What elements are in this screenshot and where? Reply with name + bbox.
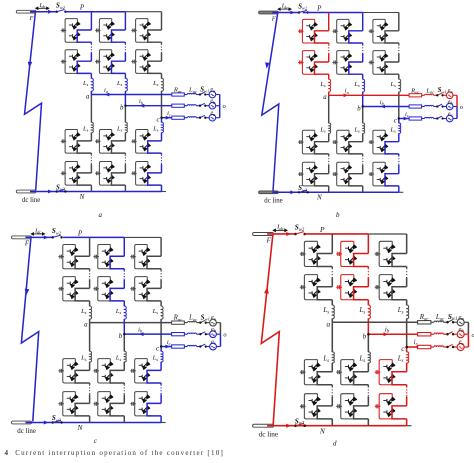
resistor Rac (phase b) — [418, 333, 431, 336]
switch Sw2 (dc positive pole) — [294, 233, 297, 236]
dotted: omitted submodules (upper arm b) — [367, 267, 369, 269]
submodule SM clower2 conduction path — [147, 403, 161, 416]
wire: N bus rail — [30, 191, 162, 193]
svg-text:d: d — [333, 439, 337, 447]
arm inductor Ls (upper arm, phase b) — [125, 78, 127, 91]
inductor Lac (phase b) — [187, 105, 196, 106]
submodule SM clower1: half-bridge cell — [375, 360, 397, 385]
wire: upper arm chain, phase b (from P rail) — [362, 13, 364, 31]
wire: chain to N rail — [124, 185, 126, 191]
dc terminal (positive pole P) — [16, 2, 66, 14]
wire: chain to arm inductor — [161, 73, 163, 78]
wire: chain to N rail — [160, 416, 162, 423]
current arrow ib — [380, 105, 385, 109]
wire: phase-c output line (node c) — [161, 346, 172, 348]
wire: chain to N rail — [406, 419, 408, 426]
arm inductor Ls (upper arm, phase a) — [329, 79, 331, 92]
wire: phase-b output line (node b) — [124, 333, 171, 335]
svg-text:P: P — [319, 225, 325, 234]
wire: lower arm chain, phase c (from node c) — [160, 347, 162, 352]
wire: dc terminal to switch, with current arrow — [272, 12, 299, 14]
dc terminal (positive pole P) — [259, 3, 309, 15]
submodule SM bupper2: half-bridge cell — [336, 275, 358, 300]
wire: chain to arm inductor — [124, 73, 126, 78]
submodule SM alower1: half-bridge cell — [298, 130, 319, 154]
submodule SM cupper1: half-bridge cell — [375, 241, 397, 266]
submodule SM alower1: half-bridge cell — [300, 360, 322, 385]
submodule SM clower2 conduction path — [385, 174, 399, 186]
wire: phase-c output line (node c) — [407, 346, 418, 348]
dotted: omitted submodules (upper arm b) — [362, 43, 364, 45]
junction node c — [160, 117, 162, 119]
submodule SM alower2: half-bridge cell — [300, 394, 322, 419]
svg-text:a: a — [86, 93, 90, 100]
dotted: omitted submodules (lower arm b) — [362, 154, 364, 156]
submodule SM blower1: half-bridge cell — [336, 360, 358, 385]
resistor Rac (phase b) — [172, 104, 185, 107]
dotted: omitted submodules (lower arm c) — [161, 153, 163, 155]
ac source ec — [446, 115, 453, 122]
arm inductor Ls (lower arm, phase a) — [91, 122, 93, 132]
junction node b — [367, 333, 370, 336]
arm inductor Ls (upper arm, phase a) — [90, 306, 92, 319]
submodule SM blower2: half-bridge cell — [93, 392, 114, 416]
submodule SM blower1 conduction path — [112, 141, 126, 153]
svg-text:c: c — [394, 117, 397, 124]
submodule SM cupper1: half-bridge cell — [369, 19, 390, 43]
submodule SM bupper1 conduction path — [354, 254, 369, 267]
dotted: omitted submodules (upper arm c) — [160, 269, 162, 271]
wire: chain to arm inductor — [89, 301, 91, 306]
arm inductor Ls (upper arm, phase a) — [91, 78, 93, 91]
dotted: omitted submodules (lower arm c) — [398, 154, 400, 156]
ac source eb — [457, 331, 464, 338]
dotted: omitted submodules (lower arm a) — [331, 385, 333, 387]
wire: upper arm chain, phase c (from P rail) — [406, 234, 408, 254]
dotted: omitted submodules (lower arm c) — [406, 385, 408, 387]
resistor Rac (phase c) — [172, 116, 185, 119]
wire: lower arm chain, phase a (from node a) — [90, 95, 92, 123]
svg-text:4 Current interruption operat: 4 Current interruption operation of the … — [5, 449, 225, 457]
submodule SM bupper2 conduction path — [349, 62, 363, 74]
wire: dc terminal to switch, with current arrow — [267, 233, 295, 235]
resistor Rac (phase a) — [172, 321, 185, 324]
switch Sw1 (phase c): contacts and blade — [437, 116, 442, 118]
dotted: omitted submodules (upper arm c) — [161, 42, 163, 44]
switch Sw1 (phase c): contacts and blade — [200, 115, 205, 117]
arm inductor Ls (lower arm, phase c) — [162, 122, 164, 132]
current arrow ib — [139, 332, 144, 336]
switch Sw3 (dc negative pole) — [294, 424, 297, 427]
switch Sw1 (phase a): contacts and blade — [200, 320, 205, 322]
submodule SM clower1: half-bridge cell — [131, 130, 152, 154]
wire: lower arm chain, phase b (from node b) — [367, 334, 369, 352]
submodule SM aupper1: half-bridge cell — [58, 244, 79, 268]
submodule SM alower2: half-bridge cell — [298, 162, 319, 186]
junction node b — [362, 105, 364, 107]
resistor Rac (phase b) — [172, 333, 185, 336]
dotted: omitted submodules (upper arm a) — [328, 43, 330, 45]
dc line with fault (lightning) symbol — [262, 14, 279, 191]
submodule SM blower1 conduction path — [354, 372, 369, 385]
resistor Rac (phase c) — [409, 117, 422, 120]
submodule SM clower2: half-bridge cell — [131, 162, 152, 186]
submodule SM aupper2 conduction path — [315, 62, 329, 74]
switch Sw3 (dc negative pole) — [298, 191, 300, 193]
dc terminal (negative pole N) — [253, 424, 274, 427]
dc terminal (negative pole N) — [11, 421, 31, 424]
svg-text:dc line: dc line — [17, 427, 36, 435]
wire: phase-c output line (node c) — [399, 118, 409, 120]
submodule SM alower1 conduction path — [77, 141, 91, 153]
ac source ea — [446, 92, 453, 99]
wire: upper arm chain, phase a (from P rail) — [90, 12, 92, 30]
ac source ec — [210, 343, 217, 350]
submodule SM clower1: half-bridge cell — [369, 130, 390, 154]
submodule SM aupper1: half-bridge cell — [300, 241, 322, 266]
inductor Lac (phase a) — [434, 321, 443, 322]
submodule SM cupper1 conduction path — [392, 254, 407, 267]
wire: phase-a output line (node a) — [329, 94, 409, 96]
inductor Lac (phase c) — [434, 346, 443, 347]
wire: upper arm chain, phase c (from P rail) — [398, 13, 400, 31]
svg-text:b: b — [119, 332, 123, 340]
dc line with fault (lightning) symbol — [25, 13, 42, 190]
dotted: omitted submodules (upper arm a) — [89, 269, 91, 271]
wire: phase-b output line (node b) — [125, 105, 171, 107]
svg-text:a: a — [327, 320, 331, 328]
junction node c — [160, 345, 162, 347]
arm inductor Ls (upper arm, phase c) — [161, 306, 163, 319]
svg-text:dc line: dc line — [264, 198, 282, 205]
submodule SM alower2 conduction path — [315, 174, 329, 186]
switch Sw1 (phase c): contacts and blade — [448, 344, 453, 347]
switch Sw1 (phase a): contacts and blade — [448, 320, 453, 323]
submodule SM bupper2 conduction path — [112, 61, 126, 73]
arm inductor Ls (lower arm, phase b) — [124, 351, 126, 362]
submodule SM bupper1: half-bridge cell — [95, 19, 116, 43]
submodule SM aupper2: half-bridge cell — [58, 277, 79, 301]
dotted: omitted submodules (lower arm a) — [328, 154, 330, 156]
wire: chain to N rail — [367, 419, 369, 426]
wire: chain to N rail — [362, 186, 364, 192]
arm inductor Ls (lower arm, phase a) — [90, 351, 92, 362]
submodule SM alower1: half-bridge cell — [58, 359, 79, 383]
svg-text:N: N — [316, 194, 322, 202]
current arrow ib — [384, 332, 389, 336]
svg-text:F: F — [266, 237, 272, 245]
inductor Lac (phase c) — [187, 117, 196, 118]
submodule SM cupper2: half-bridge cell — [130, 277, 151, 301]
svg-text:c: c — [156, 117, 159, 124]
arm inductor Ls (lower arm, phase c) — [399, 123, 401, 133]
wire: upper arm chain, phase b (from P rail) — [367, 234, 369, 254]
submodule SM alower1 conduction path — [315, 142, 329, 154]
dc terminal (positive pole P) — [253, 224, 306, 236]
wire: phase-a output line (node a) — [91, 94, 171, 96]
wire: chain to N rail — [398, 186, 400, 192]
arm inductor Ls (upper arm, phase b) — [124, 306, 126, 319]
arm inductor Ls (lower arm, phase c) — [161, 351, 163, 362]
svg-text:o: o — [223, 332, 226, 339]
current arrow ic — [404, 117, 409, 121]
submodule SM blower1 conduction path — [110, 370, 124, 383]
wire: chain to arm inductor — [406, 300, 408, 306]
resistor Rac (phase a) — [172, 93, 185, 96]
ac source eb — [210, 331, 217, 338]
ac source ea — [210, 319, 217, 326]
dotted: omitted submodules (upper arm c) — [406, 267, 408, 269]
ac source eb — [209, 102, 216, 109]
svg-text:b: b — [336, 211, 340, 219]
submodule SM clower1 conduction path — [385, 142, 399, 154]
wire: chain to N rail — [161, 185, 163, 191]
switch Sw1 (phase b): contacts and blade — [200, 332, 205, 334]
submodule SM blower2: half-bridge cell — [336, 394, 358, 419]
wire: chain to arm inductor — [331, 300, 333, 306]
wire: N bus rail — [25, 421, 161, 423]
wire: chain to N rail — [90, 185, 92, 191]
arm inductor Ls (lower arm, phase b) — [368, 352, 370, 363]
dotted: omitted submodules (lower arm b) — [367, 385, 369, 387]
inductor Lac (phase a) — [187, 321, 196, 322]
svg-text:o: o — [460, 104, 463, 111]
dotted: omitted submodules (lower arm b) — [123, 383, 125, 385]
current arrow ia — [344, 93, 349, 97]
wire: N bus rail — [272, 191, 399, 193]
wire: source neutral bus (node o) — [219, 95, 221, 106]
submodule SM aupper1: half-bridge cell — [298, 19, 319, 43]
wire: phase-b output line (node b) — [368, 333, 417, 335]
submodule SM aupper2 conduction path — [75, 288, 89, 301]
submodule SM clower1 conduction path — [147, 370, 161, 383]
svg-text:P: P — [316, 5, 322, 13]
switch Sw3 (dc negative pole) — [52, 421, 54, 423]
dc line with fault (lightning) symbol — [21, 239, 38, 422]
wire: dc terminal to switch, with current arrow — [30, 11, 57, 13]
svg-text:P: P — [79, 4, 85, 12]
submodule SM aupper1 conduction path — [77, 30, 91, 42]
submodule SM blower2 conduction path — [110, 403, 124, 416]
wire: upper arm chain, phase a (from P rail) — [89, 237, 91, 256]
submodule SM cupper2 conduction path — [148, 61, 162, 73]
svg-text:dc line: dc line — [22, 197, 40, 204]
submodule SM aupper2: half-bridge cell — [300, 275, 322, 300]
arm inductor Ls (upper arm, phase c) — [399, 79, 401, 92]
svg-text:P: P — [77, 229, 83, 237]
submodule SM blower2 conduction path — [112, 173, 126, 185]
inductor Lac (phase b) — [425, 105, 434, 106]
wire: source neutral bus (node o) — [456, 95, 458, 106]
switch Sw1 (phase b): contacts and blade — [437, 104, 442, 106]
svg-text:F: F — [24, 241, 30, 248]
current arrow ic — [414, 345, 419, 349]
svg-text:a: a — [99, 211, 103, 219]
resistor Rac (phase b) — [409, 105, 422, 108]
inductor Lac (phase a) — [425, 94, 434, 95]
submodule SM aupper2: half-bridge cell — [298, 51, 319, 75]
svg-text:b: b — [357, 105, 361, 112]
dotted: omitted submodules (lower arm a) — [89, 383, 91, 385]
dc terminal (negative pole N) — [259, 191, 279, 194]
submodule SM alower1: half-bridge cell — [61, 130, 82, 154]
wire: phase-b output line (node b) — [363, 106, 409, 108]
submodule SM clower2 conduction path — [392, 406, 407, 419]
dc line with fault (lightning) symbol — [261, 235, 279, 424]
svg-text:o: o — [223, 103, 226, 110]
dotted: omitted submodules (lower arm c) — [160, 383, 162, 385]
svg-text:a: a — [323, 94, 327, 101]
submodule SM cupper1 conduction path — [147, 256, 161, 269]
submodule SM bupper1 conduction path — [110, 256, 124, 269]
submodule SM cupper1 conduction path — [148, 30, 162, 42]
inductor Lac (phase b) — [434, 333, 443, 334]
wire: upper arm chain, phase b (from P rail) — [124, 12, 126, 30]
submodule SM blower1: half-bridge cell — [93, 359, 114, 383]
junction node b — [124, 105, 126, 107]
dotted: omitted submodules (upper arm a) — [331, 267, 333, 269]
submodule SM bupper1: half-bridge cell — [332, 19, 353, 43]
switch Sw1 (phase a): contacts and blade — [200, 92, 205, 94]
submodule SM aupper2 conduction path — [317, 287, 332, 300]
arm inductor Ls (upper arm, phase b) — [368, 305, 370, 319]
wire: lower arm chain, phase b (from node b) — [123, 334, 125, 351]
submodule SM alower2: half-bridge cell — [58, 392, 79, 416]
submodule SM clower2: half-bridge cell — [375, 394, 397, 419]
switch Sw1 (phase b): contacts and blade — [200, 103, 205, 105]
dotted: omitted submodules (lower arm b) — [124, 153, 126, 155]
svg-text:b: b — [120, 105, 124, 112]
wire: N bus rail — [267, 425, 407, 427]
submodule SM cupper1 conduction path — [385, 31, 399, 43]
dc terminal (negative pole N) — [16, 190, 36, 193]
switch Sw1 (phase a): contacts and blade — [437, 93, 442, 95]
arm inductor Ls (lower arm, phase c) — [407, 352, 409, 363]
wire: P bus rail — [305, 233, 369, 235]
arm inductor Ls (upper arm, phase b) — [363, 79, 365, 92]
wire: P bus rail — [63, 236, 124, 238]
wire: lower arm chain, phase b (from node b) — [362, 107, 364, 124]
submodule SM blower1: half-bridge cell — [332, 130, 353, 154]
svg-text:N: N — [79, 193, 85, 201]
wire: chain to N rail — [328, 186, 330, 192]
inductor Lac (phase c) — [187, 345, 196, 346]
arm inductor Ls (lower arm, phase a) — [332, 352, 334, 363]
arm inductor Ls (lower arm, phase b) — [125, 122, 127, 132]
submodule SM cupper2 conduction path — [147, 288, 161, 301]
switch Sw2 (dc positive pole) — [52, 236, 54, 238]
wire: lower arm chain, phase b (from node b) — [124, 106, 126, 123]
submodule SM clower2 conduction path — [148, 173, 162, 185]
wire: source neutral bus (node o) — [467, 322, 469, 334]
dc terminal (positive pole P) — [11, 227, 62, 239]
submodule SM cupper1: half-bridge cell — [130, 244, 151, 268]
wire: chain to arm inductor — [362, 74, 364, 79]
submodule SM aupper1: half-bridge cell — [61, 19, 82, 43]
current arrow ib — [140, 104, 145, 108]
submodule SM clower2: half-bridge cell — [369, 162, 390, 186]
submodule SM alower2: half-bridge cell — [61, 162, 82, 186]
dotted: omitted submodules (upper arm b) — [124, 42, 126, 44]
wire: phase-a output line (node a) — [332, 321, 417, 323]
submodule SM cupper2 conduction path — [392, 287, 407, 300]
submodule SM cupper2 conduction path — [385, 62, 399, 74]
svg-text:dc line: dc line — [259, 431, 278, 439]
junction node b — [123, 333, 125, 335]
wire: upper arm chain, phase a (from P rail) — [328, 13, 330, 31]
switch Sw2 (dc positive pole) — [56, 11, 58, 13]
submodule SM alower2 conduction path — [75, 403, 89, 416]
submodule SM blower2: half-bridge cell — [95, 162, 116, 186]
submodule SM clower1 conduction path — [392, 372, 407, 385]
arm inductor Ls (upper arm, phase a) — [332, 305, 334, 319]
wire: upper arm chain, phase c (from P rail) — [160, 237, 162, 256]
wire: source neutral bus (node o) — [219, 323, 221, 335]
submodule SM bupper2 conduction path — [354, 287, 369, 300]
wire: chain to N rail — [89, 416, 91, 423]
wire: P bus rail — [303, 12, 363, 14]
wire: phase-c output line (node c) — [162, 117, 172, 119]
submodule SM alower2 conduction path — [317, 406, 332, 419]
wire: P bus rail — [65, 11, 125, 13]
arm inductor Ls (upper arm, phase c) — [162, 78, 164, 91]
svg-text:a: a — [84, 321, 88, 329]
submodule SM blower1 conduction path — [349, 142, 363, 154]
submodule SM aupper1 conduction path — [75, 256, 89, 269]
submodule SM alower1 conduction path — [317, 372, 332, 385]
junction node c — [398, 117, 400, 119]
wire: chain to arm inductor — [160, 301, 162, 306]
switch Sw3 (dc negative pole) — [56, 190, 58, 192]
submodule SM bupper1 conduction path — [112, 30, 126, 42]
svg-text:N: N — [319, 426, 326, 435]
submodule SM cupper1: half-bridge cell — [131, 19, 152, 43]
junction node c — [405, 346, 408, 349]
ac source ea — [457, 319, 464, 326]
submodule SM blower2 conduction path — [354, 406, 369, 419]
submodule SM bupper2 conduction path — [110, 288, 124, 301]
submodule SM bupper1: half-bridge cell — [93, 244, 114, 268]
svg-text:b: b — [363, 332, 367, 340]
submodule SM aupper1 conduction path — [317, 254, 332, 267]
wire: upper arm chain, phase b (from P rail) — [123, 237, 125, 256]
inductor Lac (phase a) — [187, 93, 196, 94]
switch Sw2 (dc positive pole) — [298, 11, 300, 13]
submodule SM cupper2: half-bridge cell — [375, 275, 397, 300]
wire: chain to N rail — [331, 419, 333, 426]
submodule SM clower1: half-bridge cell — [130, 359, 151, 383]
submodule SM bupper1 conduction path — [349, 31, 363, 43]
wire: lower arm chain, phase a (from node a) — [89, 323, 91, 352]
submodule SM cupper2: half-bridge cell — [369, 51, 390, 75]
arm inductor Ls (upper arm, phase c) — [407, 305, 409, 319]
submodule SM blower2: half-bridge cell — [332, 162, 353, 186]
dotted: omitted submodules (lower arm a) — [90, 153, 92, 155]
arm inductor Ls (lower arm, phase a) — [329, 123, 331, 133]
submodule SM clower2: half-bridge cell — [130, 392, 151, 416]
wire: lower arm chain, phase c (from node c) — [161, 118, 163, 123]
wire: lower arm chain, phase c (from node c) — [398, 119, 400, 124]
submodule SM bupper1: half-bridge cell — [336, 241, 358, 266]
wire: lower arm chain, phase c (from node c) — [406, 347, 408, 352]
wire: lower arm chain, phase a (from node a) — [328, 95, 330, 123]
wire: chain to N rail — [123, 416, 125, 423]
submodule SM aupper2 conduction path — [77, 61, 91, 73]
ac source eb — [446, 103, 453, 110]
submodule SM bupper2: half-bridge cell — [95, 50, 116, 74]
dotted: omitted submodules (upper arm b) — [123, 269, 125, 271]
wire: chain to arm inductor — [398, 74, 400, 79]
